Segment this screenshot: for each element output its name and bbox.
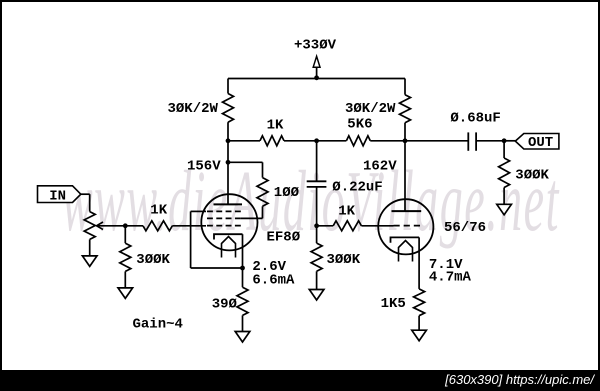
wire top supply rail xyxy=(228,78,405,80)
wire R 1K grid2 to U2 grid xyxy=(361,225,393,227)
wire node B to C 0.22uF xyxy=(316,141,318,182)
wire node C down to plate 56/76 xyxy=(404,141,406,211)
resistor 5K6 xyxy=(346,136,370,146)
wire U2 cathode lead down xyxy=(418,237,420,289)
watermark www.dieAudioVillage.net xyxy=(62,150,560,251)
ground R 1K5 xyxy=(412,330,427,341)
U1 grid g3 xyxy=(207,210,241,212)
ground R 390 xyxy=(235,332,250,343)
wire node F to R 1K input xyxy=(125,225,143,227)
wire R 1K5 to ground xyxy=(418,316,420,331)
resistor 300K right xyxy=(499,158,510,188)
wire R 300K right to ground xyxy=(503,188,505,205)
node G grid 56/76 junction xyxy=(314,223,319,228)
wire R 300K mid to ground xyxy=(316,271,318,289)
wire C 0.68uF to node D xyxy=(476,140,504,142)
wire IN down to pot xyxy=(89,194,91,211)
node B decoupling junction xyxy=(314,138,319,143)
wire rail to R 30K/2W left xyxy=(227,79,229,94)
resistor 100 screen xyxy=(257,178,268,207)
wire pot to ground xyxy=(89,239,91,256)
U2 plate xyxy=(392,210,422,212)
wire node C to C 0.68uF xyxy=(405,140,468,142)
wire R 100 bottom to g2 xyxy=(262,206,264,218)
ground mid 300K xyxy=(309,290,324,301)
resistor 1K5 xyxy=(414,289,425,316)
wire node G to R 300K mid xyxy=(316,226,318,243)
U1 grid g1 xyxy=(207,225,241,227)
U1 grid g2 xyxy=(207,217,241,219)
wire node D to R 300K right xyxy=(503,141,505,158)
U2 grid xyxy=(394,225,421,227)
capacitor 0.22uF xyxy=(307,180,327,182)
node C plate 56/76 xyxy=(403,138,408,143)
wire R 1K mid to node B xyxy=(284,140,317,142)
tube U2 56/76 envelope xyxy=(378,199,433,254)
wire rail to R 30K/2W right xyxy=(404,79,406,95)
wire R 30K/2W left to node A xyxy=(227,122,229,141)
resistor 30K/2W right xyxy=(400,95,411,123)
U1 heater xyxy=(222,237,236,258)
resistor 1K mid xyxy=(260,136,284,146)
wire 156V node to R 100 xyxy=(228,161,263,163)
node A plate EF80 xyxy=(226,138,231,143)
resistor 1K grid2 xyxy=(333,221,361,231)
port IN flag xyxy=(38,186,81,203)
potentiometer wiper arrow xyxy=(97,222,104,230)
ground right 300K xyxy=(497,204,512,215)
wire node D to OUT flag xyxy=(504,140,515,142)
wire U1 cathode lead xyxy=(242,234,244,268)
wire R 300K left to ground xyxy=(124,271,126,288)
wire IN flag right xyxy=(81,193,90,195)
wire g3 strap down xyxy=(190,211,192,268)
capacitor 0.68uF xyxy=(467,132,469,150)
U1 plate xyxy=(214,203,243,205)
wire g2 lead xyxy=(241,217,263,219)
power symbol +330V arrow xyxy=(313,56,320,67)
ground pot xyxy=(82,256,97,267)
wire node F to R 300K left xyxy=(124,226,126,243)
wire wiper to node F xyxy=(97,225,126,227)
resistor 30K/2W left xyxy=(223,94,234,123)
wire R 30K/2W right to node C xyxy=(404,123,406,141)
wire node B to R 5K6 xyxy=(317,140,347,142)
node E cathode EF80 xyxy=(240,266,245,271)
U2 cathode xyxy=(391,237,420,242)
resistor 300K left xyxy=(120,243,131,271)
node F input junction xyxy=(123,223,128,228)
resistor 1K input xyxy=(143,221,172,231)
U2 heater xyxy=(399,241,413,262)
wire into R 100 top xyxy=(262,162,264,177)
node +330V junction xyxy=(314,75,319,80)
wire +330V arrow stem xyxy=(316,67,318,78)
port OUT flag xyxy=(515,134,559,150)
node D output xyxy=(502,138,507,143)
potentiometer VR1 element xyxy=(84,212,95,240)
wire node G to R 1K grid2 xyxy=(317,225,334,227)
ground left 300K xyxy=(118,288,133,299)
resistor 300K mid xyxy=(311,243,322,271)
tube U1 EF80 envelope xyxy=(201,194,257,250)
wire R 1K input to U1 g1 xyxy=(172,225,206,227)
node 156V screen junction xyxy=(226,160,231,165)
wire g3 strap bottom xyxy=(191,267,243,269)
wire R 5K6 to node C xyxy=(370,140,405,142)
resistor 390 xyxy=(237,287,248,315)
wire g3 lead left xyxy=(191,210,206,212)
wire node A to R 1K mid xyxy=(228,140,260,142)
wire node A down to plate EF80 xyxy=(227,141,229,205)
wire C 0.22uF to node G xyxy=(316,187,318,226)
U1 cathode xyxy=(214,234,243,239)
wire node E to R 390 xyxy=(242,268,244,287)
wire R 390 to ground xyxy=(242,315,244,331)
bottom credit bar xyxy=(0,370,600,391)
